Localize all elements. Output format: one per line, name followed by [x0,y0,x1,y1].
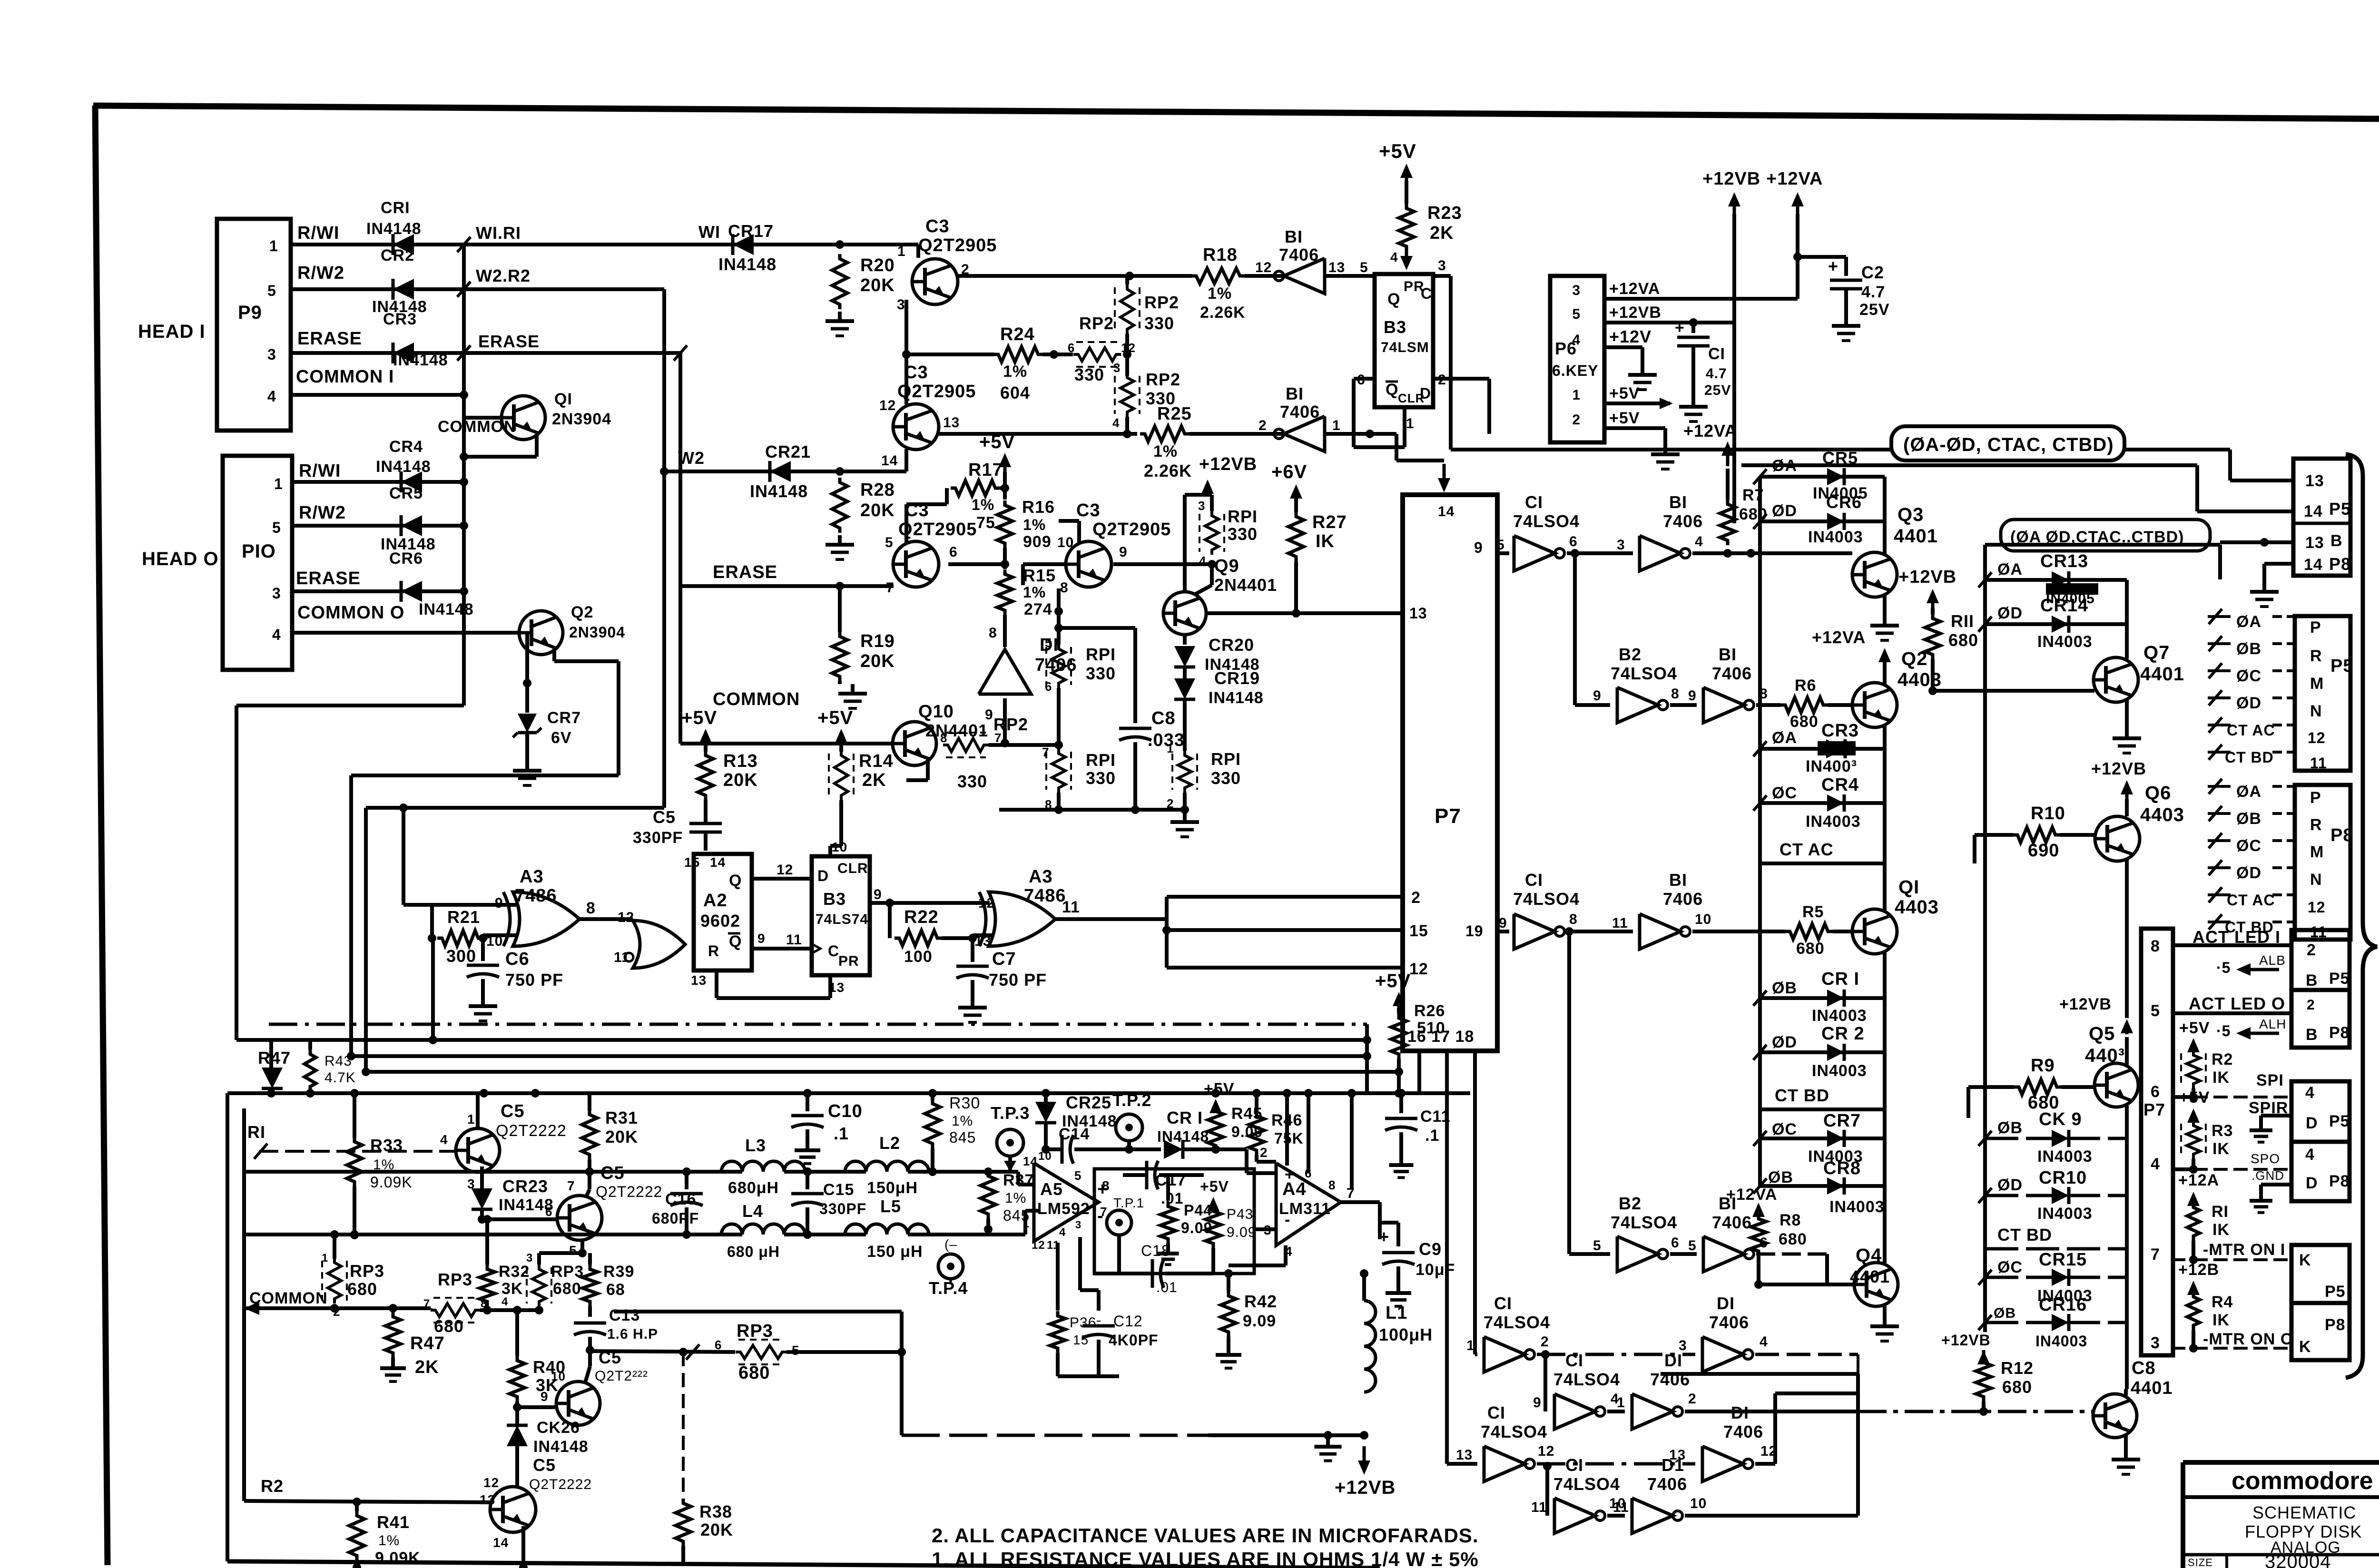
svg-text:9: 9 [1593,688,1602,704]
pin10 B1e [1695,911,1711,927]
svg-text:1: 1 [1466,1338,1475,1353]
svg-text:CR19: CR19 [1214,668,1260,688]
svg-text:+5V: +5V [1204,1080,1234,1098]
svg-text:4: 4 [1059,1226,1066,1239]
svg-text:1: 1 [1023,1217,1030,1230]
wire R22 to x13 [942,934,977,942]
svg-text:330: 330 [1228,524,1258,544]
svg-text:RPI: RPI [1086,645,1116,664]
svg-text:2: 2 [1541,1334,1549,1350]
wire C3b emitter [904,449,908,471]
svg-text:T.P.4: T.P.4 [929,1278,968,1298]
wire R24 to RP2 [1043,350,1073,359]
svg-text:.1: .1 [1425,1127,1439,1145]
resistor R40 [510,1306,566,1411]
pin6 B3a [1357,372,1366,388]
capacitor C7 [956,938,1047,998]
svg-text:74LS74: 74LS74 [816,911,868,927]
bus line 4 [362,1068,1403,1076]
ground R44 [1158,1246,1179,1264]
svg-text:20K: 20K [605,1127,638,1147]
svg-text:RPI: RPI [1228,507,1258,526]
svg-text:C12: C12 [1113,1313,1143,1330]
pin3 D1b [1679,1338,1687,1353]
title block box [2183,1462,2379,1568]
svg-text:P7: P7 [2143,1100,2165,1119]
svg-text:74LSO4: 74LSO4 [1553,1370,1620,1389]
inductor L4 [721,1201,805,1260]
wire RP1d bot [1183,793,1187,810]
wire P9 pin4 COMMON [291,393,464,397]
pin12 D1d [1760,1443,1777,1459]
wire gnd conn top [2260,538,2293,582]
connector P7 right [2141,929,2173,1355]
testpoint TP3 [991,1103,1030,1156]
svg-text:ØA: ØA [1772,729,1797,747]
svg-text:74LSO4: 74LSO4 [1553,1474,1620,1494]
diode CR1 analog [1157,1108,1209,1159]
svg-text:+: + [1285,1166,1295,1184]
connector ACT P8 [2291,990,2350,1048]
svg-text:R: R [2310,647,2322,665]
svg-text:CR7: CR7 [1823,1111,1861,1131]
inverter D1 7406 [979,635,1077,694]
svg-text:16 17 18: 16 17 18 [1407,1028,1474,1046]
svg-text:L3: L3 [745,1136,766,1155]
svg-text:5: 5 [1572,306,1581,322]
pin5 C3c [885,535,894,550]
svg-text:RΙ: RΙ [247,1122,265,1142]
wire act led 0 [2173,1011,2292,1015]
svg-text:IN4003: IN4003 [2037,1147,2093,1166]
resistor R10 [2013,804,2065,861]
wire R9 left [1968,1087,2014,1118]
svg-text:ØD: ØD [2236,864,2261,882]
svg-text:330: 330 [1144,314,1174,333]
svg-text:9: 9 [1533,1395,1542,1411]
transistor C3 Q2T2905 b [893,363,976,450]
label SPIR [2249,1099,2288,1117]
wire gnd row mid [999,805,1189,814]
wire common row analog [244,1302,397,1315]
resistor R41 [349,1502,421,1567]
svg-text:IN4003: IN4003 [2035,1333,2087,1350]
svg-text:D: D [2306,1174,2318,1192]
ground C6 [469,997,497,1021]
svg-text:ACT LED O: ACT LED O [2189,994,2285,1013]
label W1 [698,222,720,242]
svg-text:4: 4 [2151,1155,2160,1173]
svg-text:4: 4 [2305,1146,2315,1164]
wire R38 bot [681,1546,685,1565]
svg-text:14: 14 [1023,1154,1038,1168]
label R/W2 P9 [297,263,344,283]
svg-text:9: 9 [1499,915,1507,931]
pin2 P6 [1572,412,1581,428]
connector P5 phases [2295,616,2353,772]
svg-text:R32: R32 [499,1263,530,1281]
svg-text:3K: 3K [501,1280,523,1298]
svg-text:C7: C7 [992,949,1016,969]
label MTR ON O [2203,1330,2293,1348]
pin3 P7r [2151,1334,2160,1352]
connector P9 [217,219,291,431]
svg-text:Q6: Q6 [2145,783,2171,804]
wire chain4 drop [1545,1466,1549,1516]
svg-text:BI: BI [1719,645,1737,664]
svg-text:B3: B3 [823,889,846,909]
wire R17 right [1000,484,1009,492]
wire +12VB vert [1732,214,1736,523]
svg-text:680: 680 [434,1316,464,1336]
svg-text:4401: 4401 [1850,1267,1890,1286]
pin9 C5c [541,1389,549,1404]
ground sp0 [2250,1193,2272,1213]
wire RP2d to node [989,741,1063,749]
wire chain3 in [1447,1462,1477,1466]
svg-text:7: 7 [886,580,895,596]
svg-text:11: 11 [786,932,802,948]
resistor R43 [305,1040,356,1093]
label ACT LED O [2189,994,2285,1013]
pin19 P7 [1465,922,1484,940]
svg-text:IN4003: IN4003 [1829,1198,1885,1216]
label +5V P6 p1 [1609,384,1640,402]
pin5 P6 [1572,306,1581,322]
svg-text:R2: R2 [261,1476,284,1496]
svg-text:11: 11 [1613,1499,1629,1515]
svg-text:4: 4 [1112,416,1120,430]
svg-text:2: 2 [1688,1391,1697,1407]
svg-text:4: 4 [440,1132,448,1147]
wire TP4 stem [950,1279,952,1284]
wire D1b out [1755,1353,1858,1356]
svg-text:CR I: CR I [1167,1108,1203,1127]
wire R45 bot [1214,1149,1218,1150]
svg-text:5: 5 [1045,636,1052,650]
svg-text:330PF: 330PF [633,829,683,847]
resistor R18 [1191,245,1246,322]
svg-text:ØD: ØD [1772,502,1797,520]
svg-text:ERASE: ERASE [713,562,777,582]
svg-text:C18: C18 [1141,1242,1170,1259]
wire R22 drop [888,903,892,938]
pin1 C5a [467,1112,475,1127]
svg-text:RP3: RP3 [438,1270,472,1289]
svg-text:ØB: ØB [2236,640,2261,658]
ground spir [2250,1123,2272,1142]
wire B1b input loop [1324,430,1396,438]
wire R4 bot [2173,1330,2198,1352]
svg-text:25V: 25V [1859,301,1890,319]
svg-text:ØA: ØA [2236,613,2261,631]
wire R30 bot [931,1148,934,1172]
pin14 C5d [493,1535,509,1550]
svg-text:R26: R26 [1414,1002,1445,1020]
wire step S1 [236,706,464,1040]
svg-text:QI: QI [554,390,572,408]
wire C3a collector row [956,272,1192,280]
wire P9 pin3 [291,351,464,355]
ground mid row [1170,813,1199,837]
svg-text:R39: R39 [603,1263,634,1281]
pin5 B1f [1688,1238,1697,1254]
wire RP1b bot [1054,793,1063,814]
inverter D1 7406 b [1702,1294,1753,1372]
label COMMON 0 [297,603,404,623]
border frame top [93,106,2379,119]
wire q3c base [517,1405,557,1409]
svg-text:+12Β: +12Β [2178,1261,2219,1279]
wire R37 bot [984,1219,993,1234]
resistor R19 [832,631,895,681]
svg-text:14: 14 [2304,502,2323,520]
resistor R23 [1399,203,1462,251]
label R2 net [261,1476,284,1496]
label +12A [2178,1171,2219,1189]
wire R24 row [902,350,994,359]
wire R15 to D1 [1003,615,1007,647]
inverter B2 74LS04 b [1611,1194,1677,1272]
svg-text:1%: 1% [1023,516,1046,533]
ground CR7 [513,761,541,785]
pin13 C1e [1456,1447,1473,1463]
svg-text:Q2T2905: Q2T2905 [918,235,997,255]
wire C8 top [1059,626,1135,630]
svg-text:750 PF: 750 PF [505,970,563,990]
svg-text:T.P.2: T.P.2 [1112,1090,1151,1110]
inverter B2 74LS04 a [1611,645,1677,723]
ground C2 [1832,316,1860,341]
transistor Q9 [1163,556,1277,635]
svg-text:BI: BI [1669,492,1687,512]
svg-text:(–: (– [944,1237,957,1252]
svg-text:RP3: RP3 [551,1263,584,1281]
box comparator net [1094,1169,1254,1274]
transistor C3 Q2T2905 d [1066,500,1171,587]
svg-text:25V: 25V [1704,382,1731,398]
diode CR6 [389,549,474,618]
opamp A4 LM311 [1264,1163,1355,1259]
svg-text:4401: 4401 [2131,1378,2173,1398]
svg-text:4: 4 [1199,554,1206,568]
connector P6 [1550,276,1604,442]
wire C3a emitter [904,300,908,354]
svg-text:ØC: ØC [2236,667,2261,685]
label +12VA R8 [1726,1186,1777,1217]
svg-text:COMMON O: COMMON O [297,603,404,623]
svg-text:Q2: Q2 [1901,648,1927,669]
svg-text:13: 13 [691,973,707,988]
svg-text:4: 4 [2305,1084,2315,1102]
wire R12 bot [1979,1401,1988,1416]
capacitor C1 [1675,319,1731,398]
svg-text:74LSO4: 74LSO4 [1481,1422,1547,1441]
pin11 D1e [1613,1499,1629,1515]
svg-text:3: 3 [267,346,276,363]
svg-text:Q: Q [1387,290,1400,308]
label C5 d [529,1455,592,1492]
bus line 2 [236,1036,1367,1044]
inductor L3 [721,1136,805,1197]
resistor R25 [1140,404,1192,480]
svg-text:CT AC: CT AC [1779,840,1834,859]
svg-text:7486: 7486 [1024,886,1066,906]
svg-text:SCHEMATIC: SCHEMATIC [2252,1503,2356,1522]
svg-text:ERASE: ERASE [297,329,362,349]
svg-text:9.09: 9.09 [1243,1312,1276,1330]
wire C5b emitter [578,1239,587,1257]
bus label box 1 [1451,426,2230,461]
wire Q1 emitter [1883,951,1887,998]
matrix right rail [1883,477,1887,1186]
row phiA CR3 [1753,721,1885,756]
svg-text:+12VB: +12VB [1702,169,1760,189]
wire B1d to R6 [1756,703,1780,707]
svg-text:2: 2 [1572,412,1581,428]
svg-text:11: 11 [1062,898,1080,916]
wire B2b to B1 [1670,1252,1697,1256]
pin6 C1a [1569,534,1578,549]
resistor RP2 330 b [1068,314,1136,384]
diode CR3 [383,310,448,369]
resistor R14 [829,751,894,800]
svg-text:10: 10 [1057,535,1074,550]
row CT BD right [1985,1225,2127,1249]
capacitor C2 [1828,256,1890,319]
wire erase row [680,584,894,588]
svg-text:ØD: ØD [1997,1176,2023,1194]
svg-text:6: 6 [949,544,958,560]
inner box left rail [1983,545,1987,1332]
wire Q2 collector [1883,662,1887,685]
pin9 C1d [1533,1395,1542,1411]
wire A5 loop2 [1080,1237,1099,1311]
wire CR23 bot [478,1209,486,1224]
wire Q8 emitter [2124,1436,2128,1450]
pin9 A3a [495,895,503,911]
wire bus vert right [1363,1024,1371,1093]
svg-text:COMMON: COMMON [438,418,516,436]
resistor R44 [1160,1175,1212,1244]
wire x13 up [973,935,992,938]
wire C1f out [1607,1514,1625,1518]
wire C9 top [1380,1221,1398,1225]
svg-text:CI: CI [1565,1455,1583,1475]
svg-text:ALH: ALH [2259,1017,2286,1031]
svg-text:BI: BI [1669,870,1687,890]
inverter C1 74LS04 e [1481,1403,1547,1481]
transistor Q7 [2094,642,2184,702]
svg-text:68: 68 [606,1281,625,1299]
svg-text:Q2T2222: Q2T2222 [496,1122,567,1140]
svg-text:CR5: CR5 [389,484,423,502]
svg-text:ØD: ØD [2236,694,2261,712]
svg-text:Q2T2905: Q2T2905 [1092,519,1171,539]
svg-text:5: 5 [569,1243,577,1258]
testpoint TP4 [929,1237,968,1298]
pin12 C1e [1538,1443,1554,1459]
pin8 C1b [1569,911,1578,927]
svg-text:IN4148: IN4148 [376,458,431,476]
svg-text:680: 680 [347,1279,377,1299]
connector SP P8 [2291,1142,2350,1201]
svg-text:7406: 7406 [1279,245,1319,265]
wire R33 bot [350,1186,359,1239]
inverter C1 74LS04 c [1484,1294,1550,1372]
wire Q4 collector [1883,1186,1887,1263]
wire P6 p2 [1604,428,1665,445]
svg-text:D: D [817,867,829,884]
inverter D1 7406 d [1702,1403,1763,1481]
svg-text:C16: C16 [665,1190,696,1208]
arrow +12VA Q2 [1878,648,1891,662]
svg-text:2N4401: 2N4401 [925,721,988,740]
label +6V [1271,461,1307,499]
svg-text:8: 8 [1671,686,1680,702]
svg-text:8: 8 [1569,911,1578,927]
svg-text:P5: P5 [2329,499,2351,519]
svg-text:440³: 440³ [2085,1045,2125,1066]
pin6 C3c [949,544,958,560]
svg-text:74LSO4: 74LSO4 [1513,889,1580,909]
label +12VA arrow [1766,169,1823,214]
svg-text:12: 12 [1409,960,1428,978]
svg-text:HEAD O: HEAD O [142,549,219,569]
svg-text:P8: P8 [2329,1172,2350,1190]
pin3 C3a [897,297,905,313]
svg-text:12: 12 [978,895,995,911]
wire mid drop a [1573,553,1577,705]
svg-text:1: 1 [1332,418,1341,433]
svg-text:R15: R15 [1023,566,1056,585]
svg-text:CR3: CR3 [383,310,417,328]
wire rp3c right [787,1348,906,1356]
svg-text:Q2T2222: Q2T2222 [529,1477,592,1492]
resistor RP1 330 d [1167,741,1241,811]
wire Q1 emitter [460,434,537,461]
svg-text:1: 1 [1167,741,1174,755]
wire A4 out [1341,1202,1380,1239]
wire head1 bus [460,245,468,418]
resistor RP2 330 a [1115,284,1179,334]
svg-text:100: 100 [904,948,933,966]
inductor L2 [845,1133,929,1197]
wire filter row1 [244,1167,742,1176]
wire R25 to inv [1189,432,1285,436]
svg-text:CR 2: CR 2 [1821,1024,1865,1044]
connector K P5 [2291,1245,2350,1303]
svg-text:1%: 1% [1003,363,1027,381]
wire R3 top [2187,1108,2200,1123]
label R/W1 P10 [299,461,341,481]
ground C7 [958,998,987,1022]
wire D1c out [1685,1410,1858,1413]
wire sp0 [2193,1151,2291,1183]
svg-text:274: 274 [1024,600,1052,618]
ground P6 p2 [1651,445,1680,469]
wire R10 right [2060,833,2095,837]
wire +5V R13 [704,746,708,752]
svg-text:D: D [1420,385,1431,402]
svg-text:+: + [1828,256,1838,276]
svg-text:C11: C11 [1420,1107,1451,1126]
wire A4 in+ [1247,1149,1276,1173]
wire W2 vert [660,289,668,808]
svg-text:+12VA: +12VA [1609,280,1660,298]
wire P9 pin5 [291,287,464,291]
label +12VB Q5 [2059,995,2112,1013]
